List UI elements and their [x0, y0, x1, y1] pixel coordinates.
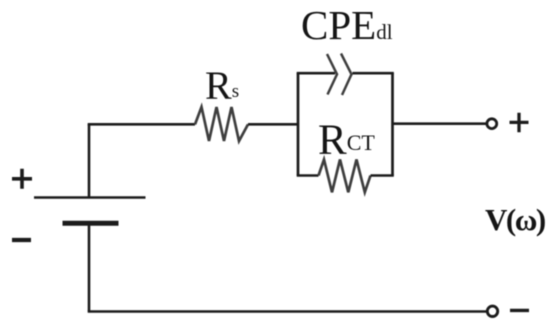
terminal circle + (top right) [487, 119, 497, 129]
plus sign at battery [12, 169, 32, 189]
wire battery - down to bottom rail [88, 223, 91, 311]
CPE CPEdl chevron 1 [327, 54, 337, 95]
label Rs [205, 62, 239, 109]
terminal circle - (bottom right) [487, 306, 497, 316]
wire box bottom edge left part [297, 174, 319, 177]
label CPEdl [301, 1, 393, 49]
wire box top edge right part [353, 72, 394, 75]
minus sign at battery [12, 238, 31, 242]
battery negative plate (short thick) [63, 221, 119, 226]
battery positive plate (long thin) [34, 196, 146, 199]
wire box top edge left part [297, 72, 335, 75]
plus sign at + terminal [510, 113, 529, 132]
minus sign at - terminal [510, 309, 529, 312]
wire box to + terminal [393, 122, 487, 125]
wire box bottom edge right part [371, 174, 394, 177]
node: parallel box right edge [391, 73, 394, 176]
node: parallel box left edge [297, 73, 300, 176]
label V(omega) [485, 202, 545, 238]
wire top-left vertical (battery + to top rail) [88, 124, 91, 198]
label RCT [318, 116, 375, 165]
resistor RCT zigzag [319, 160, 371, 193]
wire Rs to parallel box [248, 123, 298, 126]
CPE CPEdl chevron 2 [341, 54, 352, 96]
resistor Rs zigzag [195, 107, 248, 141]
wire top rail left segment [88, 123, 195, 126]
wire bottom rail [88, 310, 487, 313]
